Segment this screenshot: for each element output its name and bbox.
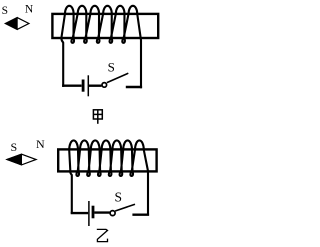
svg-text:S: S xyxy=(11,140,18,154)
svg-text:N: N xyxy=(36,137,45,151)
svg-text:S: S xyxy=(114,190,122,205)
svg-text:S: S xyxy=(108,60,115,75)
svg-text:N: N xyxy=(25,3,34,15)
svg-text:S: S xyxy=(2,5,8,17)
